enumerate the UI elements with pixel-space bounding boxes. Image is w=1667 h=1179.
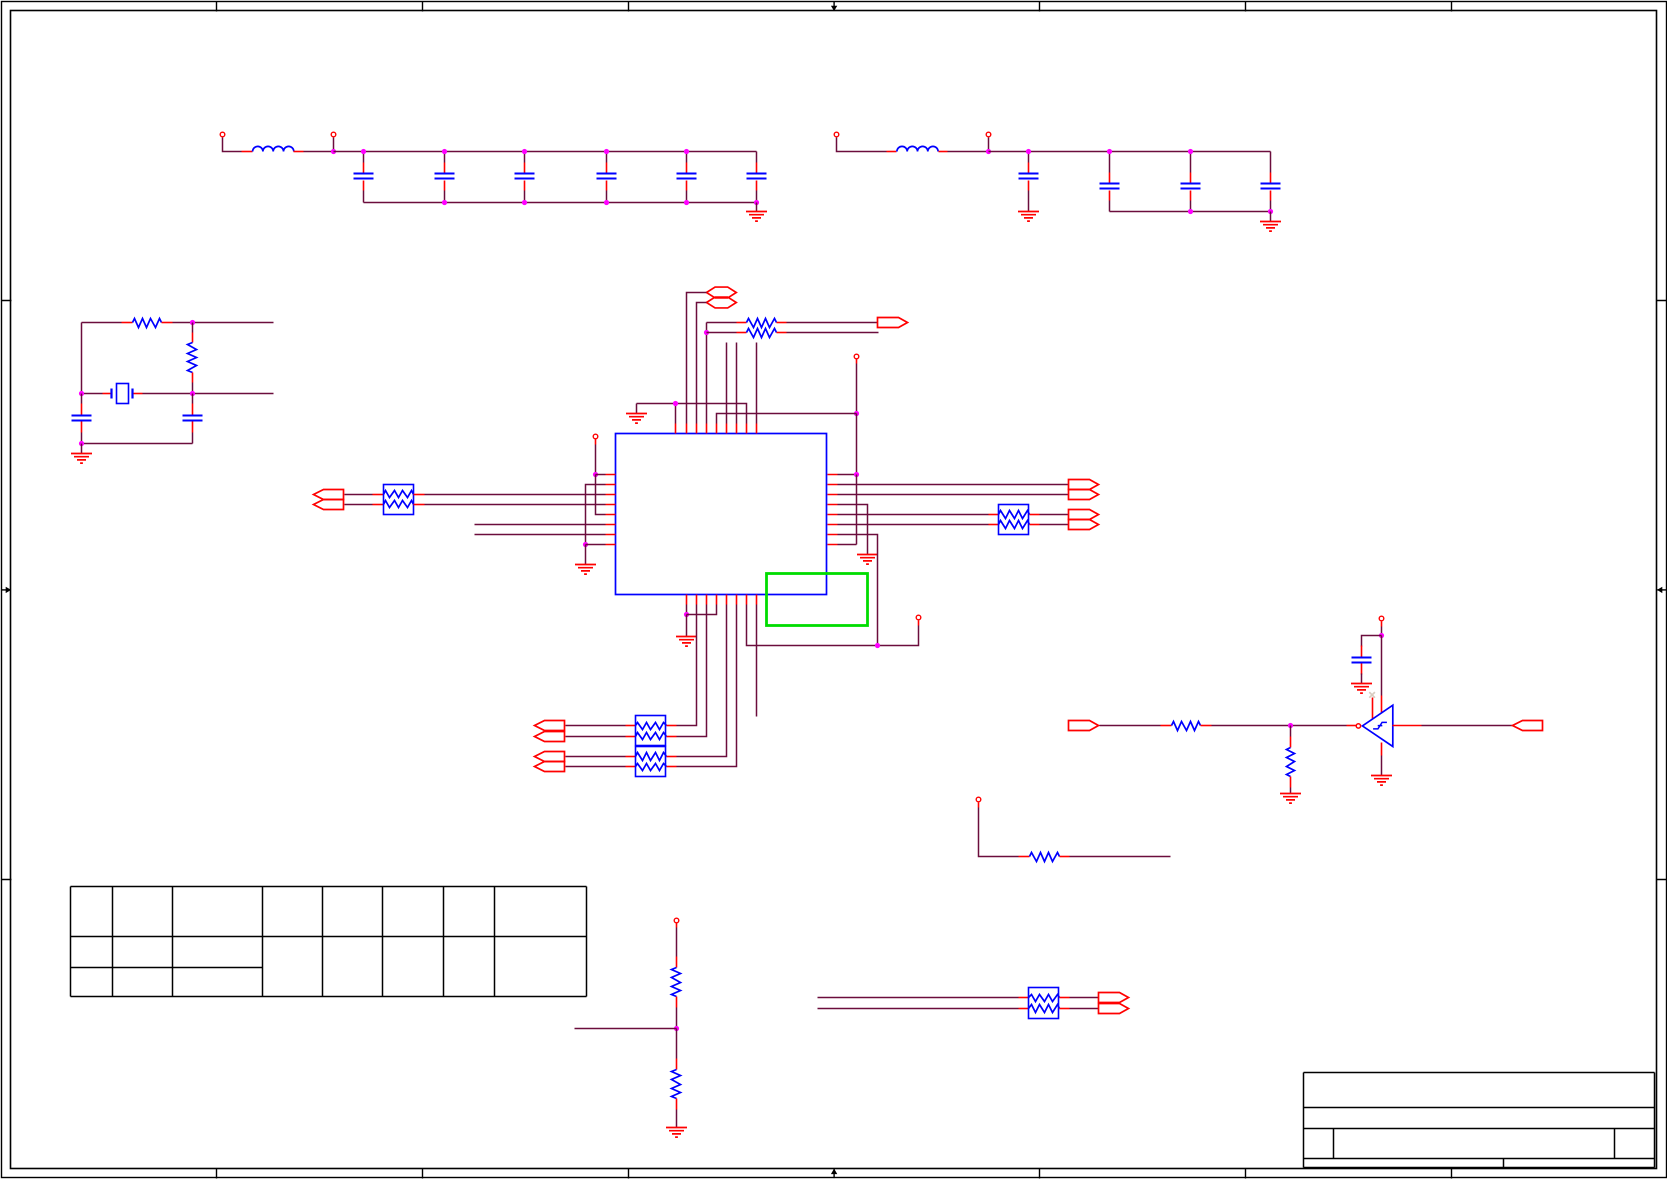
junction bottom bus <box>442 200 447 205</box>
junction top bus <box>442 149 447 154</box>
ground top <box>626 414 647 424</box>
inductor L1 <box>242 151 253 153</box>
power port P4 <box>986 132 991 137</box>
gate U2 bottom pin <box>1381 743 1383 756</box>
port PL5 <box>535 752 565 762</box>
capacitor C8 <box>1109 152 1111 173</box>
port PG2 <box>1513 721 1543 731</box>
resistor R7 <box>1019 856 1030 858</box>
wire top bus VCC2 <box>989 151 1271 153</box>
wire PL4 to RP3 <box>566 736 626 738</box>
wire bottom pin6 down <box>677 605 737 767</box>
wire bottom gnd link <box>687 605 717 615</box>
wire RP2 to PR4 <box>1040 524 1069 526</box>
wire P3 stub <box>837 138 887 152</box>
wire bottom pin7 to PC3 <box>747 605 919 646</box>
wire osc left branch <box>81 323 83 394</box>
wire PC1 down <box>595 439 597 445</box>
wire divider tap left <box>575 1028 677 1030</box>
resistor R6 pulldown <box>1290 726 1292 737</box>
inductor L2 <box>887 151 897 153</box>
ground R6 <box>1280 794 1301 804</box>
wire left gnd stem <box>585 545 587 565</box>
junction bottom bus right 2 <box>1268 209 1273 214</box>
wire right pin1 to pin8 <box>856 475 858 545</box>
U1 left pins <box>606 475 616 545</box>
junction divider tap <box>674 1026 679 1031</box>
wire P4 stub <box>988 138 990 152</box>
power port PC1 <box>593 434 598 439</box>
crystal Y1 <box>103 393 111 395</box>
wire pin6 up stub <box>726 343 728 424</box>
wire bottom pin5 down <box>677 605 727 757</box>
wire top bus VCC1 <box>334 151 757 153</box>
port PA bidirectional <box>707 287 737 298</box>
power port PC6 <box>674 918 679 923</box>
junction C7 top <box>1026 149 1031 154</box>
port PL6 <box>535 762 565 772</box>
wire gate output <box>1393 725 1422 727</box>
resistor R5 <box>1161 725 1172 727</box>
wire R5 to gate input <box>1212 725 1347 727</box>
wire PL2 to RP1 <box>345 504 373 506</box>
wire osc mid <box>82 393 103 395</box>
junction bottom bus <box>684 200 689 205</box>
wire pin7 up stub <box>736 343 738 424</box>
wire pwr to gate pin <box>1381 636 1383 696</box>
wire PC2 down to right pin1 <box>856 414 858 475</box>
wire R3 node vertical <box>706 323 708 424</box>
wire pin9 up stub <box>756 343 758 424</box>
wire PL1 to RP1 <box>345 494 373 496</box>
wire right pin4 gnd <box>838 505 868 555</box>
junction P2 node <box>331 149 336 154</box>
wire R4 stub <box>787 332 879 334</box>
capacitor C10 <box>1270 152 1272 173</box>
wire RP5 to PR5 <box>1070 997 1099 999</box>
wire PC5 stub <box>1381 622 1383 627</box>
port PR4 <box>1069 520 1099 530</box>
gate U2 enable pin <box>1372 698 1374 720</box>
U1 right pins <box>828 475 838 545</box>
junction top bus <box>684 149 689 154</box>
junction bottom bus <box>754 200 759 205</box>
port P5 <box>878 318 908 328</box>
wire RP1 to pin3 <box>425 494 606 496</box>
ground divider <box>666 1128 687 1138</box>
ground osc <box>81 444 83 454</box>
wire PL3 to RP3 <box>566 725 626 727</box>
wire RP2 to PR3 <box>1040 514 1069 516</box>
capacitor C1 <box>363 152 365 163</box>
junction node C <box>190 391 195 396</box>
resistor R1 <box>82 322 122 324</box>
junction right pin1 <box>854 472 859 477</box>
junction node A <box>190 320 195 325</box>
wire bottom pin8 stub <box>756 605 758 717</box>
ground GND1 <box>756 203 758 212</box>
ground C13 <box>1351 684 1372 694</box>
wire RP1 to pin4 <box>425 504 606 506</box>
port PR5 <box>1099 993 1129 1003</box>
junction left pin8 <box>583 542 588 547</box>
capacitor C7 <box>1028 152 1030 163</box>
port PR2 <box>1069 490 1099 500</box>
power port PC3 <box>916 615 921 620</box>
ground left <box>575 565 596 575</box>
wire RP5 to PR6 <box>1070 1008 1099 1010</box>
wire top gnd net <box>637 404 747 424</box>
wire bottom bus GND2 <box>1110 211 1271 213</box>
wire right pin6 to RP2 <box>838 524 989 526</box>
junction top bus <box>604 149 609 154</box>
wire pwr to C13 <box>1362 636 1382 647</box>
junction bottom bus <box>522 200 527 205</box>
wire PC2 to pin5 top <box>717 414 857 424</box>
port PR6 <box>1099 1004 1129 1014</box>
green highlight box <box>767 574 868 626</box>
U1 bottom pins <box>687 595 757 605</box>
wire pin7 stub left <box>475 534 606 536</box>
port PL2 <box>314 500 344 510</box>
IC U1 <box>616 434 827 595</box>
wire left pin1 <box>596 474 606 476</box>
port PL3 <box>535 721 565 731</box>
resistor pack RP1 <box>373 494 384 496</box>
U1 top pins <box>676 424 757 434</box>
wire left pin2 net <box>586 485 606 545</box>
wire PC3 stub <box>918 621 920 626</box>
wire R1 to node A <box>173 322 274 324</box>
junction top bus <box>522 149 527 154</box>
resistor R2 <box>192 323 194 333</box>
resistor pack RP3 <box>626 725 636 727</box>
wire right pin3 to PR2 <box>838 494 1069 496</box>
wire P1 stub <box>223 138 242 152</box>
capacitor C11 <box>81 394 83 404</box>
wire PC6 down <box>676 923 678 928</box>
resistor R4 <box>707 332 737 334</box>
power port P2 <box>331 132 336 137</box>
resistor R8 <box>676 957 678 968</box>
wire osc gnd bus <box>82 443 193 445</box>
resistor pack RP4 <box>626 756 636 758</box>
port PG1 <box>1069 721 1099 731</box>
wire PL5 to RP4 <box>566 756 626 758</box>
junction top bus right 2 <box>1188 149 1193 154</box>
junction left pin1 <box>593 472 598 477</box>
wire PC2 down <box>856 359 858 364</box>
power port P3 <box>834 132 839 137</box>
capacitor C9 <box>1190 152 1192 173</box>
wire P2 stub <box>333 138 335 152</box>
resistor R3 <box>707 322 737 324</box>
power port P1 <box>220 132 225 137</box>
wire left pin8 <box>586 544 606 546</box>
junction bottom bus <box>604 200 609 205</box>
wire right pin1 <box>838 474 857 476</box>
wire bottom pin1 gnd <box>686 605 688 615</box>
capacitor C4 <box>606 152 608 163</box>
capacitor C3 <box>524 152 526 163</box>
gate U2 power pin <box>1381 696 1383 713</box>
port PR1 <box>1069 480 1099 490</box>
gate U2 triangle <box>1362 705 1392 746</box>
junction P4 node <box>986 149 991 154</box>
capacitor C2 <box>444 152 446 163</box>
wire L2 to P4 node <box>948 151 989 153</box>
wire bottom pin2 down <box>677 605 697 726</box>
ground right pin4 <box>857 555 878 565</box>
wire RP5 row1 left <box>818 997 1019 999</box>
resistor pack RP2 <box>989 514 999 516</box>
wire R3 to port P5 <box>787 322 878 324</box>
power port PC2 <box>854 354 859 359</box>
wire PG1 to R5 <box>1100 725 1161 727</box>
wire pin6 stub left <box>475 524 606 526</box>
power port PC4 <box>976 797 981 802</box>
no-ERC marker X <box>1369 692 1375 698</box>
capacitor C12 <box>192 394 194 404</box>
wire PL6 to RP4 <box>566 766 626 768</box>
junction gate pwr <box>1379 633 1384 638</box>
port PL1 <box>314 490 344 500</box>
gate U2 input bubble <box>1356 724 1360 728</box>
wire L1 to P2 node <box>304 151 334 153</box>
port PB bidirectional <box>707 297 737 308</box>
port PR3 <box>1069 510 1099 520</box>
wire bottom gnd stem <box>686 615 688 637</box>
capacitor C13 <box>1361 646 1363 657</box>
title block <box>1304 1073 1655 1168</box>
junction gate input <box>1288 723 1293 728</box>
junction PC2 node <box>854 411 859 416</box>
wire RP5 row2 left <box>818 1008 1019 1010</box>
wire bottom pin3 down <box>677 605 707 737</box>
junction bottom gnd <box>684 612 689 617</box>
junction top gnd <box>673 401 678 406</box>
junction top bus right <box>1107 149 1112 154</box>
wire PA to pin <box>687 293 707 424</box>
junction pin7 net <box>875 643 880 648</box>
wire bottom bus GND1 <box>364 202 757 204</box>
ground gate <box>1371 776 1392 786</box>
ground bottom <box>676 637 697 647</box>
ground C7 <box>1018 212 1039 222</box>
junction node B <box>79 391 84 396</box>
power port PC5 <box>1379 616 1384 621</box>
port PL4 <box>535 732 565 742</box>
resistor pack RP5 <box>1019 997 1029 999</box>
wire right pin7 down <box>838 535 878 646</box>
wire PB to pin <box>697 303 707 424</box>
junction bottom bus right <box>1188 209 1193 214</box>
capacitor C5 <box>686 152 688 163</box>
wire left pin1 to pin5 <box>596 475 606 515</box>
junction R4 tap <box>704 330 709 335</box>
wire PC4 down <box>978 803 980 808</box>
capacitor C6 <box>756 152 758 163</box>
wire right pin5 to RP2 <box>838 514 989 516</box>
wire right pin2 to PR1 <box>838 484 1069 486</box>
junction osc gnd <box>79 441 84 446</box>
resistor R9 <box>676 1029 678 1059</box>
gate U2 schmitt symbol <box>1373 722 1387 729</box>
junction top bus <box>361 149 366 154</box>
wire R7 stub <box>1070 856 1171 858</box>
revision table <box>71 887 587 997</box>
ground GND2 <box>1270 212 1272 222</box>
